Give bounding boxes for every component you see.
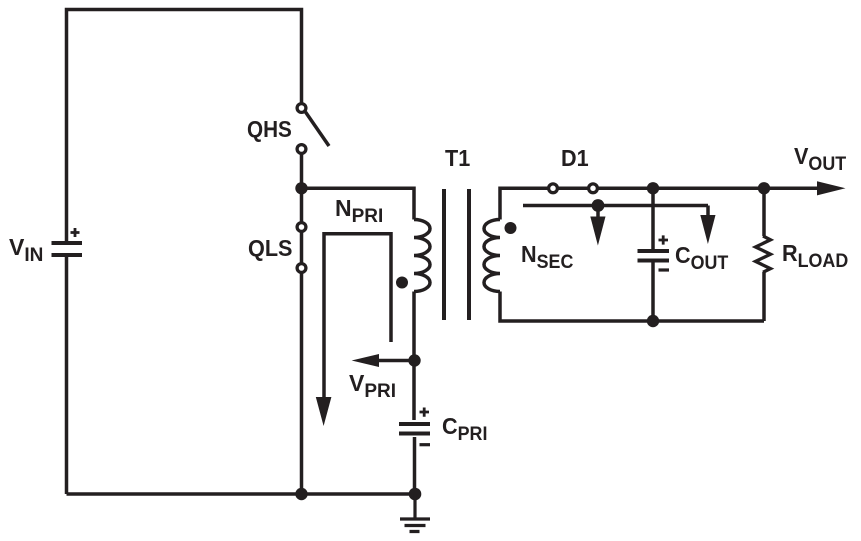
VPRI arrowhead bbox=[352, 354, 379, 367]
label NPRI bbox=[335, 197, 383, 220]
node top rail at COUT bbox=[647, 182, 659, 194]
label VPRI bbox=[349, 372, 396, 395]
transformer T1 primary winding bbox=[414, 220, 430, 292]
wire primary bottom to CPRI bbox=[412, 292, 416, 421]
label VOUT bbox=[794, 145, 846, 168]
capacitor VIN plus sign bbox=[71, 228, 80, 237]
wire RLOAD upper bbox=[762, 188, 766, 236]
switch D1 contact circle left bbox=[549, 184, 558, 193]
label D1 bbox=[561, 147, 589, 170]
switch QHS contact circle top bbox=[297, 104, 306, 113]
node top rail at RLOAD bbox=[758, 182, 770, 194]
wire node to primary top bbox=[302, 188, 415, 219]
label QHS bbox=[247, 118, 292, 141]
secondary current arrow 2 shaft bbox=[706, 206, 710, 216]
secondary current arrow 1 shaft bbox=[596, 206, 600, 218]
label RLOAD bbox=[782, 242, 848, 265]
wire COUT upper bbox=[651, 188, 655, 249]
secondary current arrow 1 head bbox=[590, 217, 605, 246]
switch QHS contact circle bottom bbox=[297, 145, 306, 154]
switch QHS blade bbox=[306, 112, 330, 146]
wire secondary top rail with D1 to VOUT bbox=[500, 188, 818, 219]
ground bbox=[400, 494, 430, 532]
node bottom rail CPRI bbox=[409, 488, 422, 501]
capacitor CPRI plates bbox=[399, 424, 430, 434]
wire left rail lower bbox=[65, 255, 69, 494]
wire RLOAD lower bbox=[762, 272, 766, 321]
label T1 bbox=[445, 147, 470, 170]
transformer T1 secondary winding bbox=[484, 220, 500, 292]
transformer T1 secondary polarity dot bbox=[505, 222, 517, 234]
label COUT bbox=[675, 244, 728, 267]
capacitor COUT plus sign bbox=[659, 235, 669, 244]
current loop rectangle NPRI bbox=[324, 234, 391, 398]
switch QLS contact circle top bbox=[297, 223, 306, 232]
wire bottom rail bbox=[67, 492, 416, 496]
VPRI arrow shaft bbox=[377, 359, 414, 363]
transformer T1 primary polarity dot bbox=[396, 277, 408, 289]
capacitor COUT plates bbox=[638, 251, 670, 261]
node at QHS/QLS midpoint bbox=[295, 182, 307, 194]
wire QHS to QLS through node bbox=[300, 144, 304, 494]
node VPRI junction bbox=[408, 354, 420, 366]
label CPRI bbox=[442, 415, 487, 438]
secondary current line bbox=[523, 204, 708, 208]
wire COUT lower bbox=[651, 263, 655, 322]
wire secondary bottom rail bbox=[500, 292, 764, 322]
resistor RLOAD zigzag bbox=[756, 236, 771, 272]
label VIN bbox=[9, 236, 43, 259]
wire top rail and left rail upper bbox=[67, 10, 302, 244]
capacitor VIN plates bbox=[52, 243, 83, 255]
label QLS bbox=[248, 237, 292, 260]
capacitor COUT minus sign bbox=[659, 268, 670, 271]
switch D1 contact circle right bbox=[589, 184, 598, 193]
capacitor CPRI plus sign bbox=[420, 408, 430, 417]
switch QLS contact circle bottom bbox=[297, 264, 306, 273]
label NSEC bbox=[521, 243, 573, 266]
wire CPRI to bottom rail bbox=[413, 437, 417, 494]
secondary current arrow 2 head bbox=[700, 215, 715, 244]
node bottom rail at COUT bbox=[647, 315, 659, 327]
transformer T1 core bbox=[444, 189, 469, 320]
VOUT arrowhead bbox=[817, 181, 846, 195]
node at bottom rail QLS bbox=[295, 488, 307, 500]
capacitor CPRI minus sign bbox=[420, 443, 431, 446]
current loop arrowhead down bbox=[316, 397, 332, 426]
node on secondary current line bbox=[592, 199, 605, 212]
